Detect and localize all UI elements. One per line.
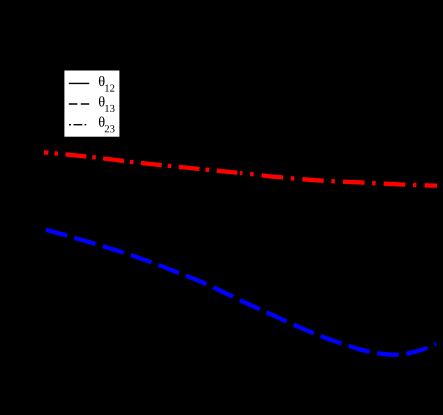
legend label theta12 [99,76,114,92]
legend sample line theta13 (dashed) [69,103,89,105]
legend sample line theta23 (dash-dot) [69,124,86,126]
legend sample line theta12 (solid) [69,82,89,84]
legend label theta23 [99,117,115,133]
legend box [64,70,120,137]
curve theta23 (red dash-dot), right segment [240,173,437,186]
curve theta13 (blue dashed) [46,230,436,355]
curve theta12 (solid black, invisible on black background) [44,197,437,199]
curve theta23 (red dash-dot), left segment [44,152,240,173]
legend label theta13 [99,96,115,112]
